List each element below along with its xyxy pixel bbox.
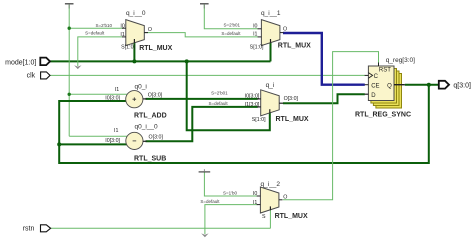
svg-text:RTL_MUX: RTL_MUX — [276, 116, 309, 123]
node VCC3 vertical to q_i__2 I0 — [204, 172, 257, 196]
pin stub register D — [365, 93, 369, 95]
svg-text:S=default: S=default — [85, 31, 105, 36]
wire q_i__0 O to q_i__1 I1 — [145, 33, 259, 37]
junction dot Q output to feedback — [427, 83, 431, 87]
pin stub register Q — [394, 84, 405, 86]
svg-text:I0[3:0]: I0[3:0] — [105, 138, 120, 144]
junction dot VCC1 to ADD I1 — [68, 93, 71, 96]
svg-text:rstn: rstn — [23, 225, 35, 232]
svg-text:O[3:0]: O[3:0] — [149, 135, 164, 141]
wire rstn net horizontal — [51, 227, 271, 229]
register q_reg stack plate 2 — [371, 69, 397, 104]
wire VCC1 to q_i__0 I0 — [69, 27, 122, 29]
svg-text:C: C — [374, 74, 379, 80]
svg-text:O[3:0]: O[3:0] — [284, 96, 299, 102]
adder plus sign — [133, 97, 137, 101]
pin stub q_i I1 — [257, 106, 261, 108]
pin stub q_i__2 S — [269, 206, 271, 210]
net continuation arrow below mode bus — [74, 65, 81, 69]
svg-text:I0: I0 — [253, 23, 257, 29]
svg-text:S=default: S=default — [200, 199, 220, 204]
wire mux q_i__1 S to mode bus — [270, 41, 272, 61]
svg-text:RTL_MUX: RTL_MUX — [275, 213, 308, 220]
svg-text:S=default: S=default — [208, 101, 228, 106]
wire RTL_ADD O to q_i I0 — [146, 98, 258, 100]
svg-text:RTL_REG_SYNC: RTL_REG_SYNC — [355, 111, 411, 118]
svg-text:q[3:0]: q[3:0] — [453, 83, 471, 90]
port rstn — [41, 225, 51, 232]
pin stub q_i__1 I1 — [258, 36, 262, 38]
svg-text:q0_i: q0_i — [135, 83, 147, 90]
svg-text:q_i__2: q_i__2 — [261, 181, 281, 188]
node VCC1 vertical net — [68, 4, 70, 136]
svg-text:RST: RST — [379, 67, 391, 73]
svg-text:I1: I1 — [115, 87, 119, 93]
svg-text:S=1'b0: S=1'b0 — [223, 190, 237, 195]
pin stub q_i S — [269, 109, 271, 113]
wire clk net horizontal — [50, 74, 365, 76]
svg-text:q_i: q_i — [266, 82, 275, 89]
port clk — [41, 72, 50, 79]
junction dot feedback to SUB I0 — [57, 142, 61, 146]
wire mux q_i__0 S to mode bus — [133, 41, 135, 61]
svg-text:I0: I0 — [253, 191, 257, 197]
node VCC2 vertical net — [204, 4, 258, 29]
pin stub q_i__0 S — [133, 39, 135, 43]
wire VCC1 to RTL_ADD I1 — [69, 93, 128, 95]
ground const symbol for q_i__2 I0 — [199, 169, 211, 172]
pin stub register RST — [378, 63, 380, 67]
svg-text:I0[3:0]: I0[3:0] — [245, 94, 260, 100]
svg-text:S[1:0]: S[1:0] — [252, 117, 266, 123]
svg-text:O: O — [283, 26, 287, 32]
svg-text:I1: I1 — [253, 32, 257, 38]
wire q_i__0 I1 to down-arrow — [78, 37, 123, 66]
svg-text:I1: I1 — [253, 200, 257, 206]
svg-text:S: S — [262, 214, 266, 220]
pin stub q_i__1 O — [280, 32, 284, 34]
power VCC2 symbol — [200, 4, 209, 9]
junction dot VCC1 to I0 — [68, 27, 71, 30]
pin stub q_i__0 I0 — [122, 27, 126, 29]
wire mode bus to q_i S route — [187, 61, 270, 130]
wire q feedback to RTL_SUB I0 — [59, 143, 126, 145]
svg-text:RTL_MUX: RTL_MUX — [278, 42, 311, 49]
svg-text:Q: Q — [387, 83, 392, 89]
pin stub q_i__1 S — [270, 39, 272, 43]
mux q_i — [261, 90, 280, 116]
svg-text:S=default: S=default — [221, 31, 241, 36]
wire rstn to S of q_i__2 vertical — [269, 209, 271, 229]
wire VCC1 to RTL_SUB I1 — [69, 135, 127, 137]
svg-text:S=2'b01: S=2'b01 — [211, 91, 228, 96]
svg-text:S[1:0]: S[1:0] — [121, 45, 135, 51]
pin stub q_i__2 I0 — [257, 195, 261, 197]
wire q_i__2 I1 to down-arrow — [205, 205, 258, 234]
svg-text:RTL_SUB: RTL_SUB — [134, 155, 166, 162]
svg-text:clk: clk — [27, 73, 36, 80]
svg-text:S=2'b01: S=2'b01 — [224, 23, 241, 28]
pin stub register C — [365, 74, 369, 76]
pin stub q_i__1 I0 — [258, 28, 262, 30]
port q[3:0] — [439, 81, 449, 89]
svg-text:S[1:0]: S[1:0] — [250, 45, 264, 51]
svg-text:O: O — [148, 27, 152, 33]
svg-text:q0_i__0: q0_i__0 — [135, 124, 159, 131]
register q_reg stack plate 3 — [373, 71, 399, 106]
pin stub q_i I0 — [257, 98, 261, 100]
svg-text:I0: I0 — [120, 23, 124, 29]
svg-text:q_i__0: q_i__0 — [126, 10, 146, 17]
svg-text:D: D — [371, 93, 376, 99]
svg-text:O: O — [283, 195, 287, 201]
register q_reg stack plate 4 — [376, 74, 402, 109]
wire q_i__1 O blue net to CE — [283, 33, 365, 85]
svg-text:RTL_MUX: RTL_MUX — [139, 45, 172, 52]
register q_reg front plate — [368, 66, 394, 101]
svg-text:I1: I1 — [114, 128, 118, 134]
pin stub register CE — [365, 84, 369, 86]
power VCC1 symbol — [65, 4, 74, 9]
svg-text:S=2'b10: S=2'b10 — [96, 23, 113, 28]
pin stub adder O — [143, 98, 147, 100]
svg-text:I0[3:0]: I0[3:0] — [105, 95, 120, 101]
svg-text:mode[1:0]: mode[1:0] — [5, 59, 36, 66]
mux q_i__2 — [260, 187, 279, 213]
wire q feedback from Q output — [59, 85, 429, 163]
wire q_i__2 O to register RST — [283, 52, 379, 200]
pin stub subtractor O — [143, 140, 147, 142]
net continuation arrow below rstn — [201, 233, 208, 237]
svg-text:I1: I1 — [120, 32, 124, 38]
wire mode[1:0] bus horizontal — [50, 60, 271, 62]
pin stub q_i__2 O — [279, 199, 283, 201]
pin stub q_i__0 I1 — [122, 36, 126, 38]
pin stub q_i__2 I1 — [257, 204, 261, 206]
svg-text:O[3:0]: O[3:0] — [148, 93, 163, 99]
mux q_i__0 — [126, 20, 145, 46]
pin stub q_i O — [279, 102, 283, 104]
mux q_i__1 — [261, 20, 280, 46]
subtractor q0_i__0 circle — [126, 132, 143, 149]
register clock chevron — [368, 73, 372, 79]
wire RTL_SUB O to q_i I1 — [146, 107, 258, 141]
pin stub q_i__0 O — [144, 32, 148, 34]
adder q0_i circle — [126, 91, 143, 108]
svg-text:q_i__1: q_i__1 — [261, 10, 281, 17]
svg-text:RTL_ADD: RTL_ADD — [134, 113, 167, 120]
subtractor minus sign — [133, 140, 137, 142]
wire q_i O to register D with jog — [283, 94, 365, 103]
junction dot mode bus at q_i S branch — [185, 59, 189, 63]
junction dot mode bus at q_i__0 S — [132, 59, 136, 63]
svg-text:I1[3:0]: I1[3:0] — [245, 102, 260, 108]
wire register Q to q port — [405, 84, 439, 86]
svg-text:q_reg[3:0]: q_reg[3:0] — [386, 57, 415, 64]
port mode[1:0] — [40, 58, 50, 66]
svg-text:CE: CE — [371, 83, 379, 89]
